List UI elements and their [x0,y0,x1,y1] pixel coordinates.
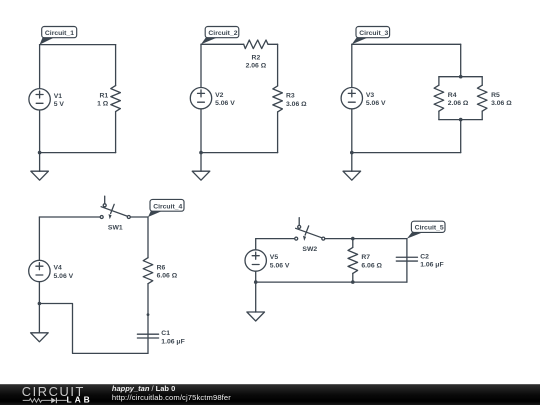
logo resistor-diode wire [23,399,67,403]
wire top rail left circuit 2 [201,43,244,45]
voltage source V4 [29,260,74,281]
svg-text:C1: C1 [161,330,170,337]
svg-text:R5: R5 [491,92,500,99]
node label Circuit_5 [407,221,445,238]
wire down to parallel pair [460,44,462,76]
wire V3 top lead [351,44,353,87]
wire ground lead circuit 2 [200,153,202,172]
wire parallel top [439,76,482,78]
wire bottom rail circuit 2 [201,152,278,154]
wire top rail circuit 3 [352,43,461,45]
svg-text:R2: R2 [252,54,261,61]
wire ground lead circuit 5 [255,282,257,312]
junction at V3 bottom node [350,151,354,155]
wire R6 top lead [147,217,149,258]
wire R3 top lead [277,44,279,86]
wire V2 bottom lead [200,109,202,153]
svg-text:3.06 Ω: 3.06 Ω [491,100,512,107]
svg-text:LAB: LAB [67,394,93,404]
svg-text:5 V: 5 V [54,101,65,108]
junction top of parallel pair [459,75,463,79]
svg-text:V1: V1 [54,93,63,100]
wire ground lead circuit 3 [351,153,353,172]
svg-text:Circuit_3: Circuit_3 [359,30,388,37]
resistor R3 [273,86,283,112]
node label Circuit_1 [40,27,77,45]
svg-text:2.06 Ω: 2.06 Ω [246,63,267,70]
wire R4 bottom lead [438,111,440,119]
svg-text:5.06 V: 5.06 V [366,100,386,107]
wire bottom rail circuit 3 [352,152,461,154]
wire R4 top lead [438,77,440,86]
svg-text:1.06 μF: 1.06 μF [161,338,184,345]
node label Circuit_3 [352,27,390,45]
wire bottom return path circuit 4 [39,304,148,354]
wire parallel bottom [439,119,482,121]
capacitor C1 [137,334,158,338]
svg-text:http://circuitlab.com/cj75kctm: http://circuitlab.com/cj75kctm98fer [112,393,231,402]
svg-text:2.06 Ω: 2.06 Ω [448,100,469,107]
svg-text:SW1: SW1 [108,224,123,231]
svg-text:R1: R1 [99,92,108,99]
svg-text:5.06 V: 5.06 V [54,273,74,280]
resistor R5 [477,85,487,111]
resistor R7 [348,247,358,273]
junction at V2 bottom node [199,151,203,155]
node dot between R6 and C1 [147,313,150,316]
wire top rail circuit 1 [40,44,116,46]
wire V4 top lead [38,217,40,260]
svg-text:Circuit_5: Circuit_5 [415,225,444,232]
resistor R1 [111,86,121,112]
svg-text:R3: R3 [286,93,295,100]
junction at R7 top [351,237,355,241]
wire R1 bottom lead [115,112,117,153]
wire R5 top lead [481,77,483,86]
ground circuit 4 [31,332,49,342]
switch SW2 (SPDT) [295,218,325,253]
svg-text:Circuit_1: Circuit_1 [45,30,74,37]
junction at R7 bottom [351,280,355,284]
svg-text:C2: C2 [420,253,429,260]
svg-text:1.06 μF: 1.06 μF [420,262,443,269]
junction at V1 bottom node [38,151,42,155]
voltage source V2 [190,88,235,109]
junction at V5 bottom node [254,280,258,284]
wire V4 bottom lead [38,282,40,304]
wire top rail to SW1 [39,216,100,218]
svg-text:R4: R4 [448,92,457,99]
svg-text:Circuit_4: Circuit_4 [153,204,182,211]
node label Circuit_4 [148,199,184,217]
svg-text:SW2: SW2 [302,246,317,253]
wire top rail to SW2 [256,238,295,240]
wire V2 top lead [200,44,202,87]
svg-text:V3: V3 [366,92,375,99]
wire ground lead circuit 4 [38,304,40,333]
svg-text:V4: V4 [54,265,63,272]
logo diode [51,398,56,404]
resistor R4 [434,85,444,111]
wire V5 top lead [255,239,257,250]
svg-text:R7: R7 [361,254,370,261]
junction bottom of parallel pair [459,118,463,122]
wire bottom rail circuit 5 [256,281,407,283]
ground circuit 3 [343,171,361,181]
voltage source V3 [341,88,386,109]
ground circuit 1 [31,171,49,181]
svg-text:Circuit_2: Circuit_2 [208,30,237,37]
wire SW2 to C2 node [325,238,407,240]
resistor R2 [244,40,268,49]
wire R7 top lead [352,239,354,248]
wire R6 through C1 to bottom [147,284,149,354]
svg-text:5.06 V: 5.06 V [270,262,290,269]
svg-text:1 Ω: 1 Ω [97,101,109,108]
wire V3 bottom lead [351,109,353,153]
svg-text:6.06 Ω: 6.06 Ω [157,273,178,280]
capacitor C2 [396,257,417,261]
wire bottom rail circuit 1 [40,152,116,154]
resistor R6 [143,258,153,284]
wire top rail right circuit 2 [268,43,278,45]
wire R5 bottom lead [481,111,483,119]
switch SW1 (SPDT) [100,196,130,231]
svg-text:6.06 Ω: 6.06 Ω [361,262,382,269]
svg-text:3.06 Ω: 3.06 Ω [286,101,307,108]
wire R7 bottom lead [352,273,354,282]
svg-text:happy_tan / Lab 0: happy_tan / Lab 0 [112,384,175,393]
wire C2 branch through plates [406,239,408,283]
svg-text:V5: V5 [270,254,279,261]
ground circuit 5 [247,311,265,321]
svg-text:V2: V2 [215,92,224,99]
svg-text:5.06 V: 5.06 V [215,100,235,107]
wire V5 bottom lead [255,271,257,282]
wire SW1 to Circuit_4 node [131,216,148,218]
svg-text:R6: R6 [157,264,166,271]
node label Circuit_2 [201,27,239,45]
voltage source V5 [245,250,290,271]
ground circuit 2 [192,171,210,181]
wire V1 bottom lead [39,110,41,153]
wire down from parallel pair [460,120,462,153]
wire ground lead circuit 1 [39,153,41,172]
wire R3 bottom lead [277,112,279,153]
wire R1 top lead [115,45,117,86]
wire V1 top lead [39,45,41,89]
voltage source V1 [29,89,64,110]
junction below V4 [38,302,42,306]
